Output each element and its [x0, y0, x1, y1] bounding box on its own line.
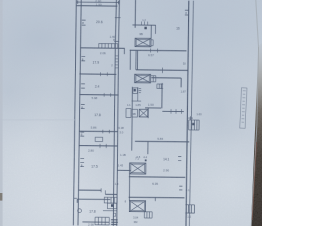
- window tick left wall room4: [80, 132, 84, 136]
- window tick left wall bottom: [74, 197, 77, 199]
- window tick left wall room2: [81, 57, 85, 61]
- wire left outer wall line2: [78, 0, 81, 225]
- window tick right wall top: [185, 10, 189, 15]
- stair flight 3 box: [130, 163, 146, 174]
- tick on room K bottom: [162, 68, 164, 74]
- stair flight 4 box: [129, 201, 145, 212]
- wire stub below wall y48: [123, 48, 125, 54]
- door ticks wall y74.5: [101, 72, 108, 76]
- wire corridor wall x134 upper: [134, 0, 136, 28]
- wall left column y131.8: [79, 130, 117, 132]
- room K bottom y69.8: [136, 69, 188, 72]
- balcony box right wall: [189, 120, 200, 130]
- fixtures row y87-94: [132, 87, 142, 101]
- left wall window tick room2b: [81, 84, 85, 88]
- wall room K top y50.2: [130, 49, 187, 52]
- paper right edge shadow wedge: [0, 0, 262, 226]
- solid dark blob: [144, 27, 146, 30]
- node spine tick y17.8: [115, 17, 121, 19]
- wall left column y190: [79, 189, 102, 191]
- wall y176.6: [129, 176, 185, 179]
- balcony inner blob: [192, 123, 194, 125]
- node spine upper end tick: [114, 40, 119, 42]
- wire stub x148.2 below y141: [147, 141, 149, 154]
- stamp box right margin: [240, 88, 247, 129]
- wall y110.9 right: [162, 110, 183, 112]
- utility ticks above y24.9: [142, 22, 148, 26]
- window tick left wall room5: [80, 158, 84, 166]
- wall y199.6: [77, 199, 110, 203]
- wall left column y74.5: [79, 73, 116, 75]
- wall left column y48: [80, 47, 124, 49]
- tick right room: [178, 157, 181, 161]
- wall y197: [129, 196, 185, 199]
- stair flight 1 box: [135, 38, 153, 47]
- wire right outer wall line2: [189, 1, 193, 227]
- wire spine double wall right line: [117, 0, 120, 226]
- room K left wall double: [136, 50, 138, 70]
- wire corridor vertical x130.3 between stair boxes: [128, 174, 130, 201]
- wire corridor vertical x180.8: [180, 78, 182, 87]
- wall offset y194.6: [105, 193, 116, 195]
- ticks above balcony: [188, 116, 193, 120]
- wire vertical x148 cluster right: [147, 108, 149, 118]
- wall left column y146: [79, 145, 117, 147]
- bottom partition line: [82, 221, 109, 223]
- dark background wedge: [251, 43, 262, 226]
- closet small hatch: [157, 84, 163, 89]
- wire top dimension line: [77, 0, 120, 4]
- door ticks wall y95: [104, 93, 110, 97]
- wall utility top y24.9: [132, 24, 155, 26]
- tick right lower: [179, 186, 182, 190]
- left wall window tick room3: [81, 104, 85, 108]
- reddish paper edge accent: [252, 142, 256, 220]
- wire spine double wall left line: [113, 0, 116, 226]
- wall y141 wide: [135, 140, 189, 143]
- wire corridor vertical x132 lower: [131, 87, 134, 151]
- wall left column y95: [79, 94, 118, 96]
- door ticks wall y131.8: [103, 130, 110, 134]
- closet hatch on wall y48: [99, 43, 118, 48]
- wire top wall: [77, 5, 118, 7]
- paper top-right edge faint line: [256, 0, 259, 47]
- wall y170.4: [117, 169, 130, 171]
- paper grain noise: [0, 0, 1, 1]
- door ticks on y50.2: [150, 48, 157, 52]
- window tick left wall room1: [82, 20, 86, 25]
- fixtures cluster 2: [126, 109, 148, 118]
- wire corridor vertical x129.7: [129, 50, 131, 70]
- faint crease left: [0, 119, 75, 120]
- spine junction cluster bottom: [103, 197, 127, 216]
- bottom hatch box: [95, 217, 109, 225]
- door ticks wall y146: [100, 144, 106, 148]
- wall y107.6: [145, 107, 161, 109]
- wire stair side vertical x155: [155, 25, 157, 34]
- door ticks y190: [101, 188, 105, 194]
- wire left outer wall line1: [73, 0, 76, 225]
- left edge dark nub: [0, 193, 2, 201]
- paper edge boundary line: [251, 47, 258, 226]
- wire right outer wall line1: [186, 1, 189, 227]
- corridor wall y77.5: [151, 77, 181, 79]
- left margin shading: [0, 0, 3, 226]
- wire stair side vertical x150: [150, 25, 152, 38]
- tick below y197: [154, 197, 156, 201]
- furniture box above wall y146: [95, 137, 102, 141]
- stair flight 2 box: [135, 74, 156, 83]
- ticks on y110.9: [171, 109, 181, 114]
- bottom hatch dark dashes right: [111, 220, 118, 225]
- solid blob near texts: [145, 159, 147, 161]
- axis circle a: [78, 209, 82, 213]
- wire vertical x161.7: [161, 83, 163, 108]
- hatch rungs in spine wall: [115, 56, 119, 68]
- porch box bottom right: [185, 205, 194, 213]
- door hatch below stair4: [144, 212, 152, 218]
